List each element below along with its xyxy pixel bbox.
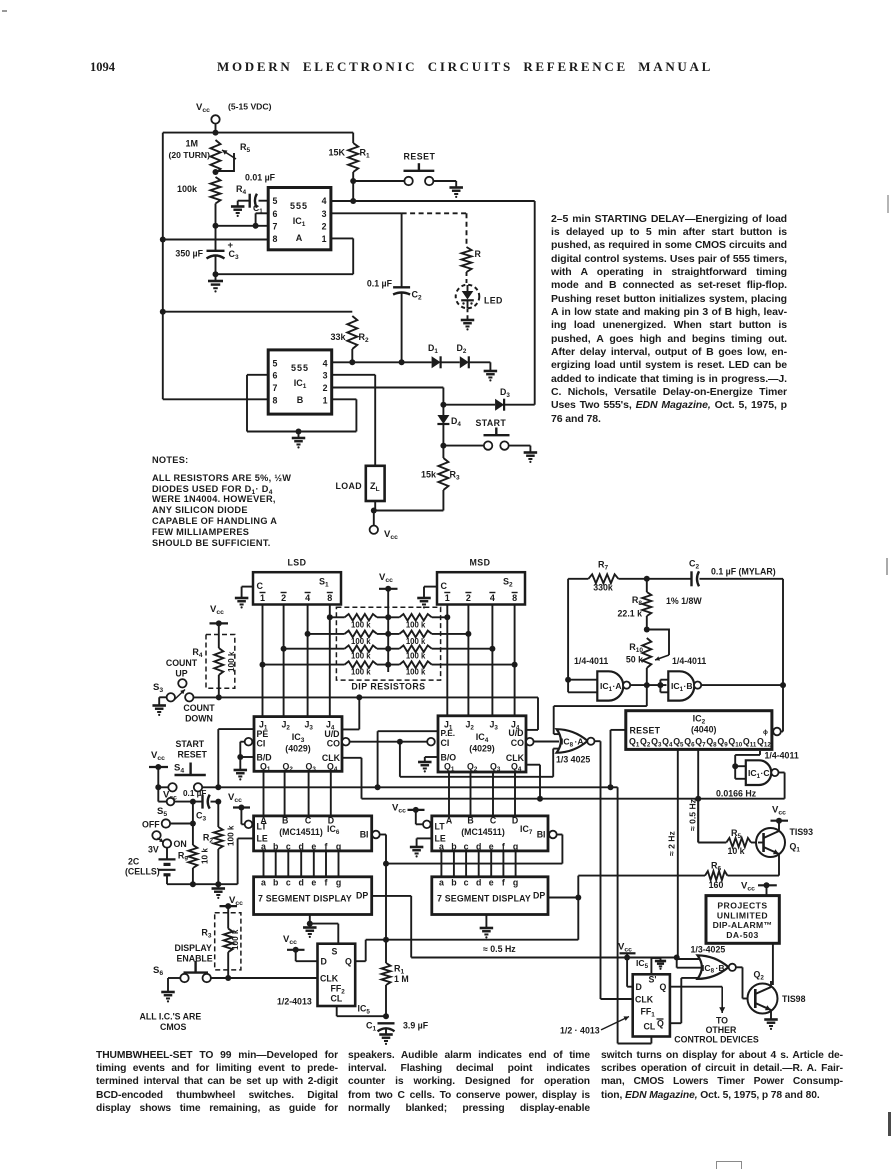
svg-text:D: D bbox=[636, 982, 642, 992]
svg-text:c: c bbox=[286, 878, 291, 888]
svg-text:R3: R3 bbox=[201, 928, 212, 940]
resistor R (LED series) bbox=[462, 247, 482, 272]
svg-text:TIS98: TIS98 bbox=[782, 994, 806, 1004]
svg-text:CL: CL bbox=[644, 1022, 656, 1032]
svg-text:100 k: 100 k bbox=[406, 652, 426, 661]
svg-text:6: 6 bbox=[273, 371, 278, 381]
label ALL ICS ARE CMOS bbox=[140, 1012, 202, 1033]
wire IC3 PE to C3 node bbox=[218, 729, 254, 787]
resistor R9 10 k bbox=[178, 824, 210, 885]
wires LSD pins down to IC3 J inputs bbox=[263, 605, 330, 717]
wires IC6 outputs to display bbox=[264, 851, 339, 877]
svg-text:Vcc: Vcc bbox=[392, 803, 406, 815]
load ZL box bbox=[335, 466, 384, 511]
svg-text:R2: R2 bbox=[203, 833, 214, 845]
wire IC4 U/D to count rail bbox=[526, 697, 538, 730]
svg-text:1 M: 1 M bbox=[394, 974, 409, 984]
svg-text:1% 1/8W: 1% 1/8W bbox=[666, 596, 702, 606]
svg-text:1/3 4025: 1/3 4025 bbox=[556, 755, 590, 765]
decoder IC6 (MC14511) bbox=[254, 816, 372, 852]
svg-text:Vcc: Vcc bbox=[741, 881, 755, 893]
diode D1 bbox=[428, 343, 441, 368]
label DISPLAY ENABLE bbox=[175, 943, 213, 964]
svg-text:BI: BI bbox=[537, 830, 546, 840]
svg-text:100 k: 100 k bbox=[406, 637, 426, 646]
svg-text:2C: 2C bbox=[128, 857, 140, 867]
battery 2C cells bbox=[125, 848, 176, 885]
svg-text:TIS93: TIS93 bbox=[790, 827, 814, 837]
pushbutton RESET bbox=[353, 152, 463, 198]
Vcc to FF1 D bbox=[618, 942, 636, 987]
wire battery ground rail bbox=[167, 881, 238, 899]
svg-text:d: d bbox=[299, 878, 304, 888]
svg-text:100 k: 100 k bbox=[231, 929, 240, 950]
svg-text:3: 3 bbox=[323, 371, 328, 381]
counter IC3 (4029) bbox=[254, 717, 342, 774]
svg-text:Vcc: Vcc bbox=[379, 572, 393, 584]
capacitor C1 0.01 uF on pin 5 bbox=[231, 173, 276, 217]
svg-text:ϕ: ϕ bbox=[763, 729, 768, 736]
wire oscillator output node bbox=[701, 579, 786, 688]
svg-text:R1: R1 bbox=[360, 148, 371, 160]
Vcc to IC7 LT bbox=[392, 803, 431, 829]
svg-text:f: f bbox=[325, 878, 328, 888]
svg-text:IC5: IC5 bbox=[358, 1004, 371, 1016]
svg-text:(CELLS): (CELLS) bbox=[125, 867, 160, 877]
svg-text:160: 160 bbox=[709, 880, 724, 890]
svg-text:CO: CO bbox=[511, 738, 524, 748]
svg-text:D2: D2 bbox=[457, 343, 467, 355]
svg-text:PROJECTS: PROJECTS bbox=[717, 901, 767, 911]
wire FF1 CLK input bbox=[601, 998, 633, 1000]
wire IC1-A output to IC1-B input bbox=[630, 679, 668, 692]
svg-text:R7: R7 bbox=[598, 560, 609, 572]
svg-text:b: b bbox=[451, 878, 457, 888]
svg-text:1/4-4011: 1/4-4011 bbox=[765, 751, 799, 761]
svg-text:BI: BI bbox=[360, 830, 369, 840]
svg-text:ON: ON bbox=[174, 839, 187, 849]
svg-text:1: 1 bbox=[260, 593, 265, 603]
svg-text:7 SEGMENT DISPLAY: 7 SEGMENT DISPLAY bbox=[258, 894, 352, 904]
Vcc for R4 pull bbox=[210, 604, 229, 626]
ground below IC1 B bbox=[292, 432, 306, 449]
svg-text:Vcc: Vcc bbox=[772, 805, 786, 817]
svg-text:·C: ·C bbox=[761, 768, 770, 778]
switch S3 count up/down bbox=[152, 658, 215, 724]
wire 2 Hz to NOR-B inputs bbox=[677, 958, 706, 968]
svg-text:1: 1 bbox=[322, 234, 327, 244]
counter IC4 (4029) bbox=[438, 716, 526, 773]
svg-text:(4029): (4029) bbox=[285, 744, 310, 754]
svg-text:(4040): (4040) bbox=[691, 725, 716, 735]
svg-text:0.1 µF: 0.1 µF bbox=[183, 789, 206, 798]
node R7/R8 junction bbox=[644, 576, 650, 582]
svg-text:e: e bbox=[311, 878, 316, 888]
svg-text:8: 8 bbox=[273, 395, 278, 405]
wire 0.5 Hz flashing line bbox=[411, 944, 680, 961]
wire IC4 CLK to clock rail bbox=[526, 765, 543, 802]
svg-text:CL: CL bbox=[331, 994, 343, 1004]
resistor R3 15k bbox=[421, 446, 460, 511]
pushbutton S6 display enable bbox=[153, 961, 211, 1002]
svg-text:100 k: 100 k bbox=[351, 668, 371, 677]
svg-text:UNLIMITED: UNLIMITED bbox=[717, 910, 768, 920]
diode D4 bbox=[437, 405, 461, 446]
LED indicator bbox=[456, 272, 503, 308]
wire pin 4 rail to right loop bbox=[331, 200, 535, 202]
svg-text:R6: R6 bbox=[711, 861, 722, 873]
svg-text:CI: CI bbox=[441, 738, 450, 748]
svg-text:R: R bbox=[475, 249, 482, 259]
svg-text:0.1 µF (MYLAR): 0.1 µF (MYLAR) bbox=[711, 567, 776, 577]
wire S6 to FF2 CLK bbox=[211, 975, 318, 981]
DIP RESISTORS dashed box bbox=[336, 607, 440, 680]
wire NOR-A output to FF1 clock line bbox=[595, 741, 601, 999]
svg-text:22.1 k: 22.1 k bbox=[618, 609, 643, 619]
thumbwheel switch S2 (MSD) bbox=[437, 558, 525, 605]
svg-text:PE: PE bbox=[257, 729, 269, 739]
svg-text:3V: 3V bbox=[148, 845, 159, 855]
NAND gate IC1-A 1/4-4011 bbox=[565, 579, 630, 701]
IC6 BI bubble and blanking line bbox=[372, 831, 389, 867]
svg-text:(20 TURN): (20 TURN) bbox=[168, 150, 210, 160]
svg-text:S5: S5 bbox=[157, 806, 167, 818]
svg-text:A: A bbox=[446, 816, 453, 826]
svg-text:100k: 100k bbox=[177, 184, 198, 194]
capacitor C1 3.9 uF bbox=[366, 1021, 429, 1045]
svg-text:Vcc: Vcc bbox=[210, 604, 224, 616]
svg-text:RESET: RESET bbox=[404, 152, 436, 162]
wire pin 2 of B bbox=[332, 388, 444, 405]
svg-text:Vcc: Vcc bbox=[283, 934, 297, 946]
resistor R6 160 bbox=[578, 861, 779, 891]
capacitor C3 0.1 uF with Vcc terminal bbox=[163, 789, 221, 823]
potentiometer R5 1M (20 TURN) bbox=[168, 139, 250, 176]
svg-text:1/4-4011: 1/4-4011 bbox=[574, 656, 608, 666]
potentiometer R10 50 k bbox=[626, 630, 669, 680]
wire NOR-B output to Q2 base bbox=[736, 967, 748, 998]
svg-text:R4: R4 bbox=[236, 184, 247, 196]
node R8/R10 junction bbox=[644, 627, 650, 633]
svg-text:CI: CI bbox=[257, 739, 266, 749]
svg-text:1M: 1M bbox=[185, 139, 198, 149]
svg-text:P.E.: P.E. bbox=[441, 728, 456, 738]
wire dashed to LED branch bbox=[402, 213, 467, 247]
svg-text:1/2 · 4013: 1/2 · 4013 bbox=[560, 1026, 600, 1036]
svg-text:100 k: 100 k bbox=[351, 637, 371, 646]
svg-text:OFF: OFF bbox=[142, 820, 160, 830]
svg-text:R2: R2 bbox=[359, 332, 370, 344]
Vcc for R3 bbox=[220, 895, 244, 909]
svg-text:(4029): (4029) bbox=[469, 744, 494, 754]
svg-text:g: g bbox=[336, 842, 341, 852]
ground below right display bbox=[480, 915, 494, 939]
svg-text:1/4-4011: 1/4-4011 bbox=[672, 656, 706, 666]
svg-text:d: d bbox=[476, 842, 481, 852]
transistor Q2 TIS98 bbox=[748, 970, 806, 1020]
svg-text:S3: S3 bbox=[153, 682, 163, 694]
svg-text:IC5: IC5 bbox=[636, 958, 649, 970]
IC4 B/O ground bbox=[418, 757, 438, 772]
svg-text:C2: C2 bbox=[689, 559, 700, 571]
resistor R4 100k bbox=[177, 177, 247, 250]
svg-text:B: B bbox=[282, 816, 288, 826]
node R1 bottom bbox=[350, 178, 356, 184]
svg-text:2: 2 bbox=[322, 221, 327, 231]
svg-text:C: C bbox=[441, 581, 448, 591]
transistor Q1 TIS93 bbox=[756, 823, 813, 876]
svg-text:·A: ·A bbox=[613, 681, 622, 691]
svg-text:1: 1 bbox=[323, 395, 328, 405]
svg-text:S6: S6 bbox=[153, 965, 163, 977]
svg-text:7 SEGMENT DISPLAY: 7 SEGMENT DISPLAY bbox=[437, 894, 531, 904]
svg-text:2: 2 bbox=[323, 383, 328, 393]
svg-text:R9: R9 bbox=[178, 851, 189, 863]
capacitor C2 0.1 uF MYLAR bbox=[647, 559, 783, 587]
wire pin 3 of B to load bbox=[332, 375, 376, 466]
resistor R2 33k bbox=[163, 312, 369, 363]
svg-text:100 k: 100 k bbox=[406, 668, 426, 677]
op-amp/timer IC1 A (555) bbox=[268, 188, 331, 250]
wire C3 left to switch node bbox=[192, 802, 194, 824]
svg-text:C: C bbox=[257, 581, 264, 591]
svg-text:START: START bbox=[176, 739, 205, 749]
wire FF1 CL from reset rail bbox=[618, 1037, 652, 1044]
svg-text:B: B bbox=[467, 816, 473, 826]
label TO OTHER CONTROL DEVICES bbox=[674, 1016, 759, 1045]
svg-text:Vcc: Vcc bbox=[618, 942, 632, 954]
wire left rail bbox=[160, 133, 166, 400]
svg-text:Q: Q bbox=[345, 957, 352, 967]
Vcc terminal below load bbox=[370, 511, 399, 542]
svg-text:100 k: 100 k bbox=[351, 652, 371, 661]
wire blanking rail bbox=[386, 863, 562, 865]
svg-text:g: g bbox=[336, 878, 341, 888]
7 segment display left bbox=[254, 877, 372, 915]
svg-text:·B: ·B bbox=[684, 681, 693, 691]
wire IC2 Q output 2 Hz down bbox=[667, 749, 678, 957]
svg-text:0.0166 Hz: 0.0166 Hz bbox=[716, 789, 757, 799]
svg-text:f: f bbox=[502, 842, 505, 852]
pin labels LSD 1 2 4 8 bbox=[260, 593, 333, 604]
Vcc for Q1 collector bbox=[771, 805, 789, 824]
IC3 CO output to IC4 CI bbox=[342, 738, 435, 746]
svg-text:4: 4 bbox=[322, 196, 327, 206]
svg-text:a: a bbox=[439, 878, 444, 888]
node C3 bottom / ground bbox=[208, 271, 223, 292]
wire IC4 P.E. to reset rail bbox=[378, 731, 438, 787]
svg-text:S: S bbox=[332, 947, 338, 957]
svg-text:Vcc: Vcc bbox=[151, 750, 165, 762]
resistor R1 1 M bbox=[382, 940, 409, 1017]
svg-text:LT: LT bbox=[435, 822, 446, 832]
svg-text:2: 2 bbox=[281, 593, 286, 603]
ground after D2 bbox=[469, 362, 497, 381]
svg-text:DP: DP bbox=[533, 891, 545, 901]
svg-text:6: 6 bbox=[273, 209, 278, 219]
svg-text:DIP RESISTORS: DIP RESISTORS bbox=[351, 682, 425, 692]
svg-text:C: C bbox=[490, 816, 497, 826]
svg-text:U/D: U/D bbox=[508, 728, 523, 738]
resistor R5 10 k bbox=[698, 799, 758, 856]
ground below LED bbox=[461, 308, 475, 330]
wire R3 bottom to load bottom bbox=[371, 508, 444, 514]
wire pin 8 of A to left rail bbox=[163, 239, 268, 241]
wire DIP-ALARM to Q2 collector bbox=[772, 943, 774, 985]
IC7 LE ground bbox=[410, 838, 432, 857]
timer IC1 B (555) bbox=[268, 350, 332, 414]
svg-text:c: c bbox=[464, 878, 469, 888]
wire top supply rail bbox=[163, 130, 353, 136]
resistor R4 100 k (dashed dip outline) bbox=[192, 623, 236, 697]
wire pin 3 of A bbox=[331, 212, 402, 214]
NOR gate IC8-A 1/3 4025 bbox=[553, 729, 594, 764]
pin labels MSD 1 2 4 8 bbox=[444, 593, 517, 604]
node R4/pin7 junction bbox=[213, 223, 219, 229]
svg-text:S4: S4 bbox=[174, 763, 184, 775]
svg-text:Q2: Q2 bbox=[754, 970, 765, 982]
ground below left display bbox=[303, 915, 317, 938]
wire IC3 U/D to count rail bbox=[342, 697, 359, 729]
svg-text:D1: D1 bbox=[428, 343, 438, 355]
svg-text:1/3-4025: 1/3-4025 bbox=[691, 945, 726, 955]
wire enable net to R6 bbox=[386, 876, 578, 940]
wire left display to FF2 S bbox=[310, 924, 339, 944]
svg-text:ALL I.C.'S ARE: ALL I.C.'S ARE bbox=[140, 1012, 202, 1022]
svg-text:CLK: CLK bbox=[635, 995, 654, 1005]
svg-text:D: D bbox=[512, 816, 518, 826]
flip-flop FF2 (1/2-4013 IC5) bbox=[277, 944, 370, 1016]
flip-flop FF1 (1/2 4013) bbox=[633, 958, 670, 1037]
svg-text:A: A bbox=[296, 233, 303, 243]
svg-text:Q: Q bbox=[660, 982, 667, 992]
svg-text:R10: R10 bbox=[629, 642, 643, 654]
svg-text:CONTROL DEVICES: CONTROL DEVICES bbox=[674, 1035, 759, 1045]
wire D1-D2 bbox=[441, 361, 460, 363]
svg-text:R3: R3 bbox=[450, 470, 461, 482]
svg-text:50 k: 50 k bbox=[626, 655, 643, 665]
wire left display DP to 0.5 Hz line bbox=[372, 896, 412, 958]
svg-text:5: 5 bbox=[273, 196, 278, 206]
IC7 BI bubble to blanking rail bbox=[549, 831, 562, 864]
svg-text:D3: D3 bbox=[500, 387, 510, 399]
svg-text:4: 4 bbox=[305, 593, 310, 603]
svg-text:U/D: U/D bbox=[324, 729, 339, 739]
thumbwheel switch S1 (LSD) bbox=[253, 558, 341, 605]
svg-text:10 k: 10 k bbox=[727, 846, 744, 856]
svg-text:100 k: 100 k bbox=[227, 651, 236, 672]
Vcc to FF2 D bbox=[283, 934, 318, 961]
wire blanking vertical with R1 bbox=[385, 864, 387, 940]
svg-text:CO: CO bbox=[327, 739, 340, 749]
label 1/2 4013 with arrow bbox=[560, 1016, 629, 1035]
svg-text:d: d bbox=[299, 842, 304, 852]
svg-text:555: 555 bbox=[290, 201, 308, 211]
svg-text:DIP-ALARM™: DIP-ALARM™ bbox=[713, 920, 773, 930]
svg-text:UP: UP bbox=[175, 669, 187, 679]
svg-text:a: a bbox=[439, 842, 444, 852]
wire IC1-C output to clock rail bbox=[779, 773, 785, 799]
svg-text:a: a bbox=[261, 842, 266, 852]
svg-text:LOAD: LOAD bbox=[335, 481, 362, 491]
Vcc for DIP-ALARM bbox=[741, 881, 777, 896]
svg-text:8: 8 bbox=[512, 593, 517, 603]
svg-text:4: 4 bbox=[323, 359, 328, 369]
svg-text:S': S' bbox=[649, 975, 657, 985]
wire pin 8 of B to left rail bbox=[163, 398, 268, 400]
wire osc out down to IC2 clock bubble bbox=[773, 685, 783, 735]
svg-text:Vcc: Vcc bbox=[196, 102, 210, 114]
resistor R2 100 k bbox=[203, 802, 236, 885]
resistor R1 15K bbox=[328, 133, 370, 201]
svg-text:Vcc: Vcc bbox=[384, 529, 398, 541]
svg-text:8: 8 bbox=[327, 593, 332, 603]
ground MSD common bbox=[417, 587, 437, 609]
wire pin 6/pin 1 ground loop of B bbox=[247, 375, 356, 435]
wires IC4 Q outputs to IC7 inputs bbox=[449, 772, 515, 816]
svg-text:330k: 330k bbox=[593, 583, 613, 593]
svg-text:COUNT: COUNT bbox=[183, 703, 215, 713]
node start junction bbox=[440, 443, 446, 449]
diode D2 bbox=[457, 343, 469, 368]
svg-text:COUNT: COUNT bbox=[166, 658, 198, 668]
pushbutton START bbox=[443, 418, 537, 463]
FF1 S-prime ground bracket bbox=[651, 958, 666, 974]
counter IC2 (4040) bbox=[626, 711, 772, 750]
svg-text:3.9 µF: 3.9 µF bbox=[403, 1021, 429, 1031]
resistor R8 22.1 k bbox=[618, 579, 703, 630]
NOR gate IC8-B 1/3-4025 bbox=[691, 945, 736, 979]
svg-text:(5-15 VDC): (5-15 VDC) bbox=[228, 102, 272, 112]
IC3 CI input bubble tied to B/D ground bbox=[234, 738, 254, 781]
svg-text:D4: D4 bbox=[451, 416, 461, 428]
svg-text:33k: 33k bbox=[330, 332, 346, 342]
svg-text:100 k: 100 k bbox=[227, 825, 236, 846]
svg-text:DP: DP bbox=[356, 891, 368, 901]
svg-text:f: f bbox=[502, 878, 505, 888]
svg-text:Vcc: Vcc bbox=[228, 792, 242, 804]
svg-text:Q: Q bbox=[657, 1019, 664, 1029]
svg-text:CMOS: CMOS bbox=[160, 1022, 187, 1032]
svg-text:555: 555 bbox=[291, 363, 309, 373]
svg-text:≈ 0.5 Hz: ≈ 0.5 Hz bbox=[483, 944, 516, 954]
svg-text:10 k: 10 k bbox=[201, 848, 210, 864]
svg-text:Q1: Q1 bbox=[790, 842, 801, 854]
wire pin 7 of IC1 A bbox=[216, 225, 269, 227]
wires IC3 Q outputs to IC6 inputs bbox=[264, 771, 331, 816]
wire clock rail (0.0166 Hz) bbox=[362, 796, 785, 802]
svg-text:R8: R8 bbox=[632, 595, 643, 607]
svg-text:C3: C3 bbox=[229, 249, 240, 261]
wires IC7 outputs to display bbox=[441, 851, 515, 877]
wire pin 1 of A to ground node bbox=[216, 238, 354, 274]
svg-text:0.01 µF: 0.01 µF bbox=[245, 173, 276, 183]
svg-text:C2: C2 bbox=[412, 290, 423, 302]
svg-text:e: e bbox=[489, 842, 494, 852]
svg-text:c: c bbox=[464, 842, 469, 852]
svg-text:RESET: RESET bbox=[178, 750, 208, 760]
Vcc to IC6 LT bbox=[228, 792, 252, 828]
svg-text:RESET: RESET bbox=[630, 726, 661, 736]
svg-text:7: 7 bbox=[273, 383, 278, 393]
svg-text:C3: C3 bbox=[196, 811, 207, 823]
svg-text:LED: LED bbox=[484, 296, 503, 306]
svg-text:b: b bbox=[273, 842, 279, 852]
svg-text:C: C bbox=[305, 816, 312, 826]
svg-text:CLK: CLK bbox=[320, 974, 339, 984]
resistor R3 100 k (dashed outline) bbox=[201, 906, 241, 978]
svg-text:D: D bbox=[321, 957, 327, 967]
